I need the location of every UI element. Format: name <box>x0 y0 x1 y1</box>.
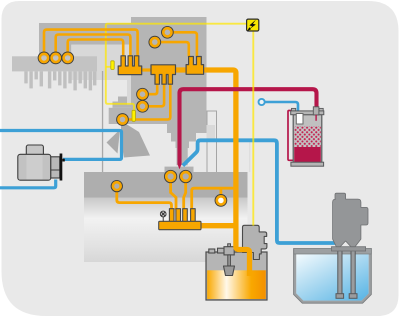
wire comb line 3 <box>68 40 124 57</box>
machine faint frame line <box>249 142 250 172</box>
node comb 3 <box>62 52 73 63</box>
wire comb line 1 <box>44 30 138 56</box>
node bar roller B <box>180 171 192 183</box>
wire blue motor top <box>0 131 122 160</box>
lube point circles <box>38 27 226 207</box>
coolant pump mounting plate <box>332 247 366 251</box>
wire manifold link left <box>142 68 152 71</box>
motor M1 <box>18 145 65 181</box>
machine frame line <box>102 71 103 173</box>
node bar roller A <box>165 171 177 183</box>
wire blue sensor <box>265 102 299 111</box>
node roller top 2 <box>149 36 160 47</box>
wire stem roller A <box>171 182 176 209</box>
sensor tick 2 <box>132 110 135 121</box>
wire blue coolant <box>183 140 337 243</box>
wire yellow to pump <box>252 31 254 226</box>
node mid 2 <box>137 101 148 112</box>
node comb 2 <box>50 52 61 63</box>
node roller top 1 <box>162 27 173 38</box>
wire stem roller B <box>184 182 186 209</box>
node mid 3 <box>117 114 128 125</box>
grease container <box>291 107 324 166</box>
distributor manifold middle <box>151 65 176 84</box>
wire prong4 feed <box>192 188 236 209</box>
machine step extension <box>167 124 207 165</box>
suction rod <box>228 255 231 266</box>
coolant tank rim <box>294 248 372 254</box>
wire white circle stub <box>219 188 222 195</box>
wire crimson thin loop <box>288 111 294 161</box>
pressure gauge <box>160 211 166 221</box>
strainer <box>224 266 235 276</box>
distributor manifold left <box>118 56 142 75</box>
wire mid prong 2 <box>148 75 164 106</box>
blue terminal circle <box>259 99 265 105</box>
comb bar <box>12 56 97 71</box>
machine central block <box>131 17 207 124</box>
electric box <box>247 19 259 31</box>
node bar left <box>111 181 122 192</box>
wire mid prong 3 <box>128 75 170 120</box>
machine base bar <box>84 172 248 198</box>
wire manifold feed <box>201 223 236 228</box>
wire manifold link right + main line <box>175 70 250 276</box>
comb teeth <box>24 71 96 90</box>
distributor manifold right <box>186 57 204 75</box>
wire mid prong 1 <box>148 75 157 94</box>
coolant liquid <box>296 254 369 301</box>
wire yellow branch <box>106 66 112 68</box>
wire roller circle 2 <box>160 42 189 56</box>
crimson tip <box>177 164 181 169</box>
coolant tank walls <box>295 248 370 302</box>
funnel left <box>107 130 121 154</box>
machine top-left block <box>39 23 131 45</box>
machine step left <box>118 97 131 102</box>
distributor manifold bottom <box>159 209 201 230</box>
machine frame box <box>207 111 217 173</box>
oil pump <box>243 225 267 259</box>
machine base body <box>84 198 248 262</box>
wire yellow main <box>106 24 247 111</box>
node white <box>215 195 226 206</box>
wire gauge circle feed <box>117 192 172 210</box>
wire roller circle 1 <box>173 32 197 56</box>
oil tank <box>206 252 267 300</box>
wire crimson main <box>180 89 317 164</box>
wire blue motor bottom <box>0 180 56 188</box>
wire comb line 2 <box>56 35 131 57</box>
coolant pump motor <box>333 193 368 247</box>
machine light panel <box>71 45 131 81</box>
sensor tick 1 <box>111 61 114 70</box>
oil liquid <box>207 270 266 299</box>
coolant pump tubes <box>336 247 357 298</box>
funnel right <box>121 125 150 158</box>
node mid 1 <box>137 89 148 100</box>
node comb 1 <box>38 52 49 63</box>
suction fitting <box>228 244 231 247</box>
machine pedestal <box>165 167 194 173</box>
